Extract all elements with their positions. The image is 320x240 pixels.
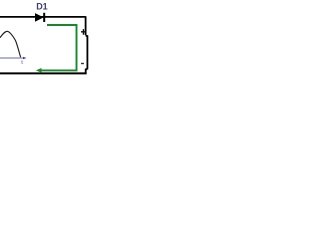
sine half-wave input sketch <box>0 31 21 57</box>
label + <box>81 29 86 35</box>
time axis <box>0 57 24 59</box>
current arrow head <box>36 68 42 73</box>
wire bottom rail <box>0 72 87 74</box>
diode D1 cathode bar <box>43 13 45 22</box>
current arrow (green loop) <box>41 25 76 70</box>
svg-text:D1: D1 <box>36 2 48 12</box>
time axis arrowhead <box>23 57 27 60</box>
wire right vertical with jogs <box>86 16 88 74</box>
svg-text:t: t <box>21 60 23 66</box>
label - <box>81 63 84 64</box>
diode D1 triangle (anode) <box>35 13 44 22</box>
wire top rail <box>0 16 86 18</box>
